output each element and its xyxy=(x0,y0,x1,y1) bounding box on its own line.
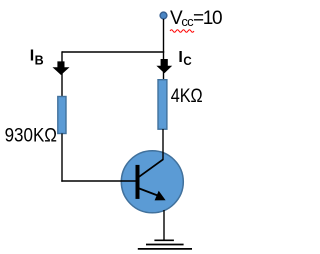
wire: collector vertical (resistor to transistor) xyxy=(162,129,164,160)
resistor RB 930K xyxy=(58,97,66,134)
spellcheck squiggle under Vcc xyxy=(170,30,194,33)
current arrow IC xyxy=(156,59,172,73)
resistor RC 4K xyxy=(158,80,167,130)
ground xyxy=(138,240,192,249)
wire: left branch vertical (corner to base resistor) xyxy=(61,51,63,97)
wire: VCC vertical down to collector resistor xyxy=(163,19,165,80)
svg-text:Vcc=10: Vcc=10 xyxy=(170,8,222,29)
current arrow IB xyxy=(53,61,70,75)
svg-text:4KΩ: 4KΩ xyxy=(171,85,203,107)
wire: base horizontal into transistor xyxy=(61,180,137,182)
svg-text:I: I xyxy=(178,49,182,66)
svg-text:B: B xyxy=(35,54,44,68)
wire: base resistor down to corner xyxy=(61,134,63,182)
transistor Q1 xyxy=(121,151,183,213)
svg-text:930KΩ: 930KΩ xyxy=(5,125,57,147)
svg-text:C: C xyxy=(183,56,191,68)
node VCC (blue terminal dot) xyxy=(160,12,167,19)
wire: top horizontal rail xyxy=(62,51,164,53)
wire: emitter vertical to ground xyxy=(163,210,165,240)
svg-text:I: I xyxy=(30,48,34,65)
